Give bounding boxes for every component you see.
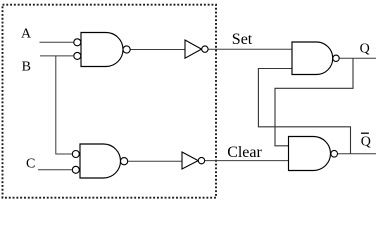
svg-text:B: B [22,59,31,74]
svg-text:Q: Q [360,41,370,56]
svg-text:Q: Q [361,135,371,150]
svg-text:Set: Set [232,31,253,48]
svg-text:A: A [21,27,32,42]
svg-text:Clear: Clear [227,144,262,161]
svg-text:C: C [26,157,35,172]
